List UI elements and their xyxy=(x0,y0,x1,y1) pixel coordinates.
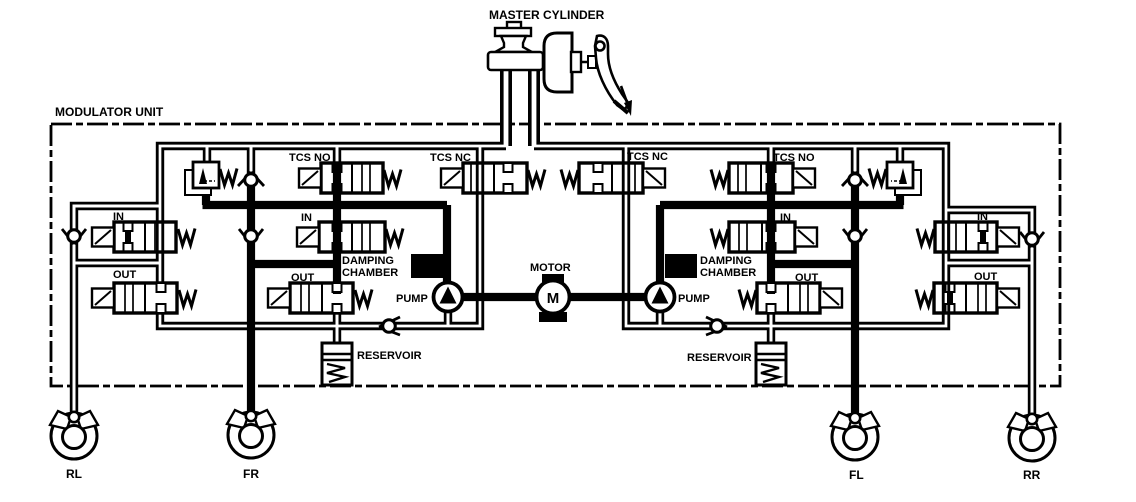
svg-text:RR: RR xyxy=(1023,468,1041,482)
wire: left relief output to pump pressure rail xyxy=(203,186,448,284)
wire: left circuit supply/return loop xyxy=(160,146,506,326)
master cylinder body xyxy=(488,52,543,70)
solenoid valve IN far-right xyxy=(917,222,1019,252)
wheel RL xyxy=(50,411,98,459)
solenoid valve IN center-right xyxy=(711,222,817,252)
wire: left relief / TCS-NO / check stems from supply xyxy=(207,146,337,176)
wire: right relief / TCS-NO / check stems from supply xyxy=(771,146,900,176)
solenoid valve IN far-left xyxy=(92,222,195,252)
wire: FL wheel line xyxy=(851,178,859,414)
svg-text:PUMP: PUMP xyxy=(396,293,428,305)
solenoid valve OUT center-right xyxy=(739,283,842,313)
damping chamber right xyxy=(665,254,697,278)
check valve on RR line xyxy=(1020,232,1044,247)
svg-text:DAMPING: DAMPING xyxy=(700,255,752,267)
svg-text:OUT: OUT xyxy=(291,272,315,284)
svg-text:IN: IN xyxy=(977,211,988,223)
wire: right cross line FL-to-outlet xyxy=(771,260,855,268)
reservoir right xyxy=(756,343,786,385)
pump right xyxy=(646,283,675,312)
damping chamber left xyxy=(411,254,443,278)
svg-text:TCS NO: TCS NO xyxy=(289,152,331,164)
svg-text:IN: IN xyxy=(301,212,312,224)
svg-text:TCS NC: TCS NC xyxy=(430,152,471,164)
svg-text:CHAMBER: CHAMBER xyxy=(342,267,398,279)
solenoid valve TCS NC right xyxy=(561,163,665,193)
svg-text:RL: RL xyxy=(66,467,82,481)
modulator unit dashed boundary box xyxy=(51,124,1060,386)
svg-text:M: M xyxy=(547,290,560,307)
svg-text:RESERVOIR: RESERVOIR xyxy=(357,350,422,362)
pedal pivot hole xyxy=(596,42,605,51)
svg-text:TCS NO: TCS NO xyxy=(773,152,815,164)
svg-text:FR: FR xyxy=(243,467,259,481)
wire: pump-motor-pump shaft line xyxy=(448,293,660,301)
svg-text:TCS NC: TCS NC xyxy=(627,151,668,163)
check valve on RL line xyxy=(62,229,86,244)
motor xyxy=(537,274,570,322)
relief valve left xyxy=(185,162,237,195)
solenoid valve TCS NO left xyxy=(299,163,401,193)
double-line pipes: black outer strokes xyxy=(74,68,1032,414)
brake booster xyxy=(544,33,572,92)
pushrod xyxy=(581,61,598,63)
svg-text:MODULATOR UNIT: MODULATOR UNIT xyxy=(55,105,164,119)
double-line pipes: white inner strokes xyxy=(74,68,1032,414)
wire: master cylinder left pipe xyxy=(500,68,512,146)
wire: right circuit supply/return loop xyxy=(534,146,946,326)
reservoir left xyxy=(322,343,352,385)
check valve on FL line (lower) xyxy=(843,229,867,244)
brake pedal arm xyxy=(595,36,629,110)
pedal press arrow xyxy=(614,101,628,113)
master cylinder reservoir cap xyxy=(507,22,521,29)
wire: FR wheel line xyxy=(247,178,255,414)
wire: right relief output to pump pressure rail xyxy=(660,186,904,284)
check valve on FR supply (upper) xyxy=(238,172,264,186)
svg-text:RESERVOIR: RESERVOIR xyxy=(687,352,752,364)
wheel FR xyxy=(227,410,275,458)
svg-text:MOTOR: MOTOR xyxy=(530,262,571,274)
check valve on FR line (lower) xyxy=(239,229,263,244)
wire: RR wheel branch with tees xyxy=(946,210,1032,414)
wire: left reservoir stem xyxy=(333,308,341,344)
wire: right TCS-NO drop through IN/OUT valves xyxy=(767,164,775,294)
wire: left TCS-NO drop through IN/OUT valves xyxy=(333,164,341,294)
wire: master cylinder right pipe xyxy=(528,68,540,146)
svg-text:OUT: OUT xyxy=(974,271,998,283)
solenoid valve OUT center-left xyxy=(268,283,372,313)
check valve on right pump suction xyxy=(706,317,727,335)
svg-text:CHAMBER: CHAMBER xyxy=(700,267,756,279)
booster pushrod housing xyxy=(571,52,581,72)
wire: right reservoir stem xyxy=(767,308,775,344)
master cylinder assembly xyxy=(488,22,632,116)
svg-text:OUT: OUT xyxy=(113,269,137,281)
master cylinder reservoir neck xyxy=(495,36,532,52)
wire: RL wheel branch with tees xyxy=(74,206,160,414)
svg-text:DAMPING: DAMPING xyxy=(342,255,394,267)
solenoid valve OUT far-left xyxy=(92,283,196,313)
solenoid valve TCS NO right xyxy=(711,163,815,193)
svg-text:IN: IN xyxy=(780,212,791,224)
relief valve right xyxy=(869,162,921,195)
wheel FL xyxy=(831,412,879,460)
svg-text:PUMP: PUMP xyxy=(678,293,710,305)
wire: left pump suction stem xyxy=(444,310,452,326)
svg-text:OUT: OUT xyxy=(795,272,819,284)
svg-text:IN: IN xyxy=(113,211,124,223)
check valve on left pump suction xyxy=(379,317,400,335)
wheel RR xyxy=(1008,413,1056,461)
svg-text:MASTER CYLINDER: MASTER CYLINDER xyxy=(489,8,605,22)
wire: left cross line FR-to-outlet xyxy=(251,260,337,268)
solenoid valve IN center-left xyxy=(297,222,403,252)
thick solid hydraulic lines xyxy=(203,164,904,414)
solenoid valve OUT far-right xyxy=(916,283,1019,313)
svg-text:FL: FL xyxy=(849,468,864,482)
check valve on FL supply (upper) xyxy=(842,172,868,186)
wire: right pump suction stem xyxy=(656,310,664,326)
solenoid valve TCS NC left xyxy=(441,163,545,193)
pump left xyxy=(434,283,463,312)
